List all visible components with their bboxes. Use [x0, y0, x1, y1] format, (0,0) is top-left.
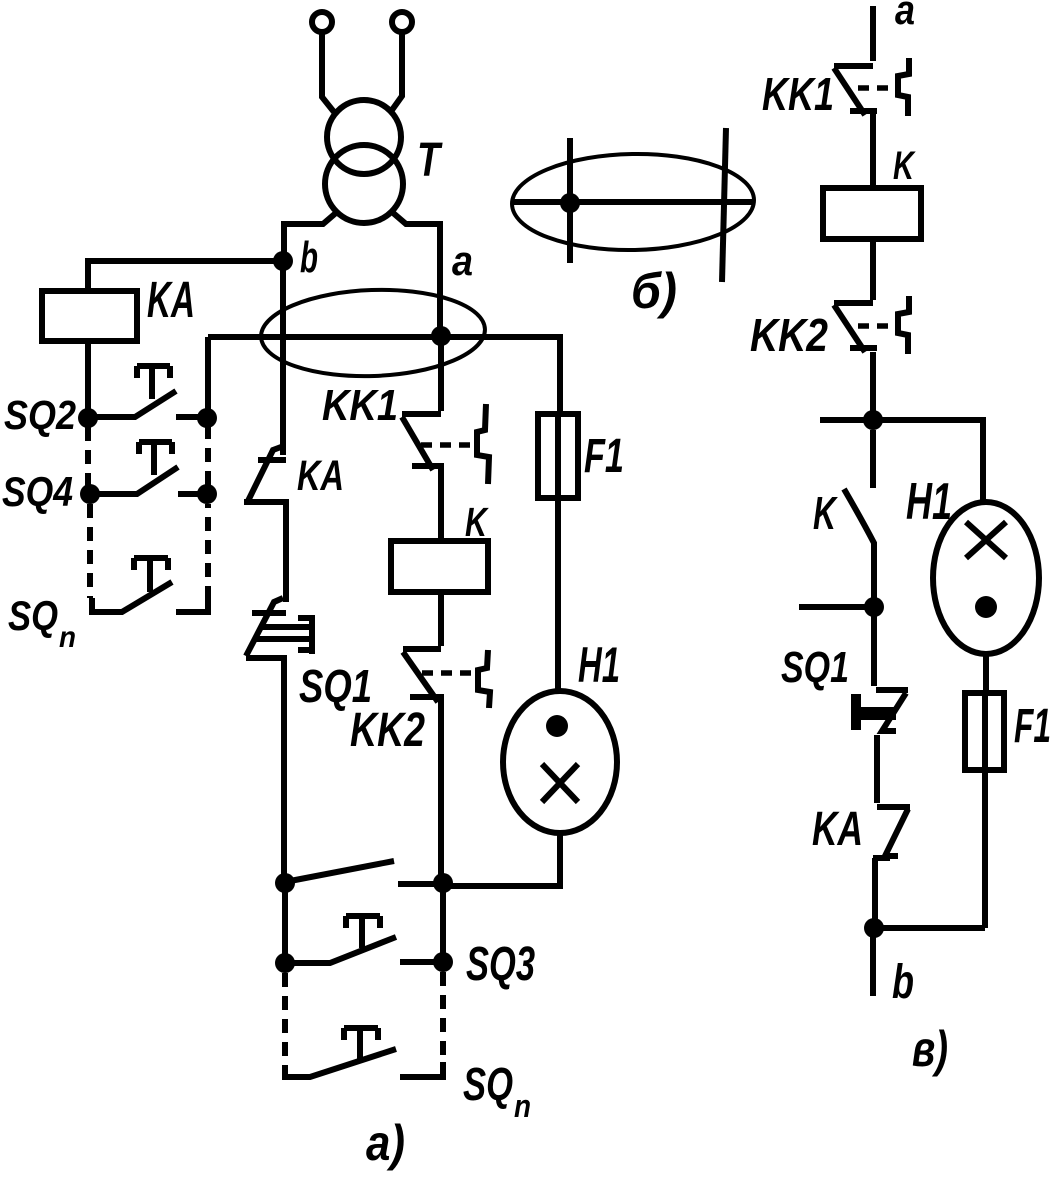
- wire: [870, 352, 876, 420]
- svg-text:а): а): [366, 1115, 405, 1171]
- relay coil K v: [823, 188, 921, 239]
- wire: [205, 504, 211, 600]
- node SQ2 right: [197, 408, 217, 428]
- svg-text:b: b: [892, 956, 914, 1009]
- wire: [282, 973, 288, 1065]
- wire: [874, 925, 985, 931]
- contact K blade: [290, 861, 441, 884]
- svg-text:KK1: KK1: [762, 68, 834, 120]
- variant oval б: [511, 152, 755, 252]
- svg-text:SQ1: SQ1: [299, 660, 372, 712]
- node SQ4 left: [80, 484, 100, 504]
- wire: [205, 337, 211, 417]
- switch SQn: [92, 558, 208, 612]
- node SQ3 left: [275, 953, 295, 973]
- wire: [799, 604, 874, 610]
- wire: [85, 341, 91, 417]
- svg-text:в): в): [912, 1021, 948, 1077]
- thermal contact KK2: [403, 649, 490, 883]
- svg-text:SQ3: SQ3: [466, 938, 535, 991]
- terminal X1: [312, 12, 332, 32]
- wire: [440, 887, 446, 962]
- node a junction: [431, 326, 451, 346]
- wire: [870, 112, 876, 188]
- svg-text:K: K: [813, 487, 838, 539]
- wire: [88, 261, 283, 291]
- wire: [438, 592, 444, 646]
- contact K v: [844, 430, 874, 607]
- svg-text:SQ4: SQ4: [2, 468, 73, 516]
- relay coil KA: [42, 291, 137, 341]
- svg-text:a: a: [895, 0, 915, 33]
- switch SQn bottom: [285, 1028, 443, 1077]
- node SQ2 left: [78, 408, 98, 428]
- node bottom left: [275, 873, 295, 893]
- wire: [873, 420, 983, 502]
- svg-text:n: n: [514, 1088, 531, 1124]
- wire: [440, 972, 446, 1062]
- wire: [280, 262, 286, 455]
- wire б horizontal: [512, 199, 755, 205]
- switch SQ4: [90, 442, 206, 494]
- wire б right vertical: [722, 128, 726, 282]
- svg-text:KA: KA: [297, 452, 344, 500]
- svg-text:SQ2: SQ2: [4, 392, 76, 438]
- terminal X2: [392, 12, 412, 32]
- thermal contact KK2 v: [834, 296, 909, 354]
- wire main horizontal: [208, 337, 560, 414]
- transformer T: [325, 100, 403, 223]
- svg-text:F1: F1: [1014, 700, 1051, 753]
- svg-text:n: n: [59, 621, 76, 654]
- node b: [273, 251, 293, 271]
- wire: [85, 427, 91, 487]
- node b v: [864, 918, 884, 938]
- wire: [322, 32, 334, 112]
- thermal contact KK1 v: [834, 58, 909, 116]
- wire: [983, 654, 989, 693]
- lamp H1 v: [933, 502, 1039, 654]
- svg-text:K: K: [893, 144, 916, 188]
- contact KA: [244, 447, 286, 602]
- wire: [205, 427, 211, 485]
- svg-text:a: a: [452, 237, 473, 284]
- svg-text:KA: KA: [147, 271, 195, 328]
- wire: [982, 693, 988, 928]
- limit switch SQ1 v: [851, 611, 908, 803]
- wire: [820, 417, 873, 423]
- svg-text:b: b: [300, 233, 318, 282]
- fuse F1 v: [965, 693, 1004, 770]
- svg-text:SQ: SQ: [8, 592, 58, 640]
- relay coil K: [391, 541, 488, 592]
- node SQ3 right: [433, 952, 453, 972]
- svg-text:KA: KA: [812, 803, 863, 856]
- wire: [443, 833, 560, 886]
- switch SQ2: [88, 366, 205, 417]
- wire: [870, 933, 876, 996]
- svg-text:K: K: [465, 499, 490, 545]
- wire: [392, 212, 440, 336]
- wire: [438, 336, 444, 411]
- svg-text:F1: F1: [584, 430, 624, 483]
- wire: [555, 414, 561, 691]
- wire: [870, 239, 876, 300]
- node v2: [864, 597, 884, 617]
- limit switch SQ1: [246, 598, 312, 883]
- svg-text:H1: H1: [578, 637, 620, 693]
- contact KA v: [873, 807, 910, 928]
- variant oval a: [260, 286, 487, 380]
- switch SQ3: [285, 916, 441, 963]
- svg-text:H1: H1: [906, 473, 952, 531]
- svg-text:KK2: KK2: [750, 309, 828, 361]
- wire: [392, 32, 402, 110]
- svg-text:KK1: KK1: [322, 381, 398, 430]
- svg-text:SQ: SQ: [463, 1058, 513, 1110]
- node v1: [863, 410, 883, 430]
- lamp H1: [503, 691, 617, 833]
- svg-text:SQ1: SQ1: [781, 643, 849, 692]
- thermal contact KK1: [402, 404, 489, 541]
- svg-text:б): б): [631, 263, 677, 319]
- wire: [87, 504, 93, 598]
- wire б left vertical: [567, 138, 573, 263]
- wire: [284, 212, 337, 261]
- node bottom right: [433, 873, 453, 893]
- node SQ4 right: [197, 484, 217, 504]
- wire: [282, 887, 288, 963]
- node б: [560, 193, 580, 213]
- fuse F1: [538, 414, 578, 498]
- wire: [870, 6, 876, 61]
- svg-text:T: T: [417, 134, 443, 187]
